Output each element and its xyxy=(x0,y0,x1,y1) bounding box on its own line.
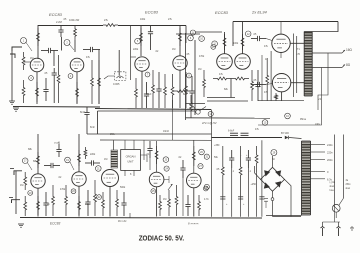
capacitor C8 xyxy=(148,26,153,51)
wire grid1 EL34 xyxy=(266,39,272,41)
wire screens xyxy=(270,51,272,101)
label BY100 xyxy=(281,131,289,135)
capacitor C34 bias xyxy=(264,199,268,208)
wire V2b cathode xyxy=(179,70,181,108)
resistor R9 cathode xyxy=(76,82,79,103)
svg-text:100k: 100k xyxy=(140,18,146,21)
svg-text:21: 21 xyxy=(97,168,100,171)
capacitor C21 coupling xyxy=(44,163,60,168)
svg-text:+: + xyxy=(246,154,248,157)
svg-text:4.7k: 4.7k xyxy=(204,198,209,201)
wire mid gnd xyxy=(186,117,271,119)
wire bridge left stub xyxy=(255,166,261,179)
wire NFB xyxy=(258,68,322,126)
capacitor C24 coupling xyxy=(85,160,100,165)
capacitor C20 xyxy=(43,192,48,216)
svg-text:27k: 27k xyxy=(104,19,109,22)
label 240v xyxy=(327,143,333,147)
svg-text:2x EL34: 2x EL34 xyxy=(251,10,267,15)
svg-text:1M: 1M xyxy=(198,68,201,71)
misc value labels xyxy=(20,18,322,206)
wire el34 gnd xyxy=(258,100,304,102)
wire speaker common xyxy=(318,53,328,110)
svg-text:1M: 1M xyxy=(104,158,107,161)
resistor R47 xyxy=(220,146,225,217)
wire V9 cathode xyxy=(156,187,158,217)
capacitor C26 xyxy=(147,141,152,170)
node circled 19 xyxy=(65,157,74,170)
resistor R17 xyxy=(171,74,174,108)
node circled 25 xyxy=(151,189,156,194)
wire J1 shield xyxy=(11,51,13,101)
svg-text:470k: 470k xyxy=(199,55,205,58)
svg-text:500k: 500k xyxy=(120,186,126,189)
wire V1 plate xyxy=(37,25,39,59)
svg-text:ECC83: ECC83 xyxy=(145,10,159,15)
capacitor C22 top xyxy=(54,142,62,158)
wire driver top xyxy=(195,31,222,33)
pentode V5 EL34 xyxy=(272,74,290,92)
resistor R1 grid leak xyxy=(22,52,25,70)
svg-text:10: 10 xyxy=(200,38,203,41)
resistor R5 27k xyxy=(103,24,118,27)
svg-text:47k: 47k xyxy=(255,128,260,131)
resistor R37 xyxy=(65,185,68,216)
mains transformer T2 core xyxy=(302,141,311,215)
wire driver gnd b xyxy=(207,100,248,102)
resistor R32 plate xyxy=(37,152,40,168)
svg-text:slow: slow xyxy=(346,188,351,190)
wire V10 plate xyxy=(193,140,195,173)
svg-text:7: 7 xyxy=(147,74,149,77)
resistor R19 nfb xyxy=(174,90,190,93)
svg-text:1: 1 xyxy=(23,40,25,43)
resistor R31 xyxy=(24,196,27,216)
svg-text:.1: .1 xyxy=(232,170,235,173)
wire psu bottom rail xyxy=(266,215,302,217)
bridge rectifier MR1-4 diamond xyxy=(261,167,285,191)
svg-text:200v: 200v xyxy=(327,158,333,162)
wire psu bottom rail2 xyxy=(273,216,302,218)
triode V8 xyxy=(102,170,119,187)
resistor R46 xyxy=(198,195,201,216)
resistor R25 xyxy=(251,70,254,101)
wire T2 tap 0 xyxy=(311,171,326,173)
wire 8mF riser xyxy=(84,107,89,134)
label VR1 xyxy=(113,82,120,86)
svg-text:12: 12 xyxy=(247,33,250,36)
svg-text:14: 14 xyxy=(209,113,212,116)
svg-text:3a: 3a xyxy=(346,180,349,182)
svg-text:8mF: 8mF xyxy=(90,126,95,129)
label C2 value xyxy=(56,20,62,24)
triode V2a xyxy=(135,57,149,71)
wire bridge bottom xyxy=(272,191,274,198)
capacitor C27 xyxy=(180,160,185,216)
wire interstage xyxy=(53,51,55,67)
resistor R7 xyxy=(57,55,60,103)
svg-text:95ma: 95ma xyxy=(300,118,307,121)
svg-text:5: 5 xyxy=(137,40,139,43)
svg-text:+: + xyxy=(226,203,228,206)
svg-text:.05: .05 xyxy=(44,72,48,75)
wire V6 cathode xyxy=(37,188,39,217)
resistor R35 plate xyxy=(78,150,81,166)
wire J2 shield xyxy=(15,171,17,214)
svg-text:ORGAN: ORGAN xyxy=(126,155,136,159)
svg-text:470: 470 xyxy=(296,53,301,56)
svg-text:26: 26 xyxy=(200,151,203,154)
wire V7 cathode xyxy=(78,186,80,217)
resistor R28 bias xyxy=(190,95,193,118)
triode V10 xyxy=(187,173,202,188)
mains pin N xyxy=(337,222,341,236)
svg-text:47k: 47k xyxy=(264,91,269,94)
resistor R15 xyxy=(152,70,155,108)
wire V6 plate xyxy=(37,134,39,174)
svg-text:ECC83: ECC83 xyxy=(215,10,229,15)
wire bus drop a xyxy=(143,140,145,160)
svg-text:1M: 1M xyxy=(163,198,166,201)
svg-text:0.005: 0.005 xyxy=(113,82,120,86)
svg-text:+: + xyxy=(240,154,242,157)
capacitor C9 bypass xyxy=(144,82,149,108)
svg-text:UNIT: UNIT xyxy=(127,160,134,164)
resistor R30 grid leak xyxy=(24,172,27,190)
label unit line2 xyxy=(127,160,134,164)
wire B+ top bus xyxy=(233,21,338,23)
fuse F1 xyxy=(271,198,274,217)
label 220v xyxy=(327,151,333,155)
resistor R13 xyxy=(179,28,182,46)
wire heater rail xyxy=(100,139,212,141)
svg-text:1M: 1M xyxy=(172,48,175,51)
svg-text:15: 15 xyxy=(264,122,267,125)
node circled 10 xyxy=(199,36,205,42)
svg-text:BY100: BY100 xyxy=(281,131,289,135)
resistor R3 100k plate xyxy=(37,28,40,46)
capacitor C32 filter xyxy=(246,150,251,217)
jack J2 input xyxy=(10,169,22,176)
capacitor C23 xyxy=(85,190,90,216)
label ECC83 bottom xyxy=(50,222,61,226)
wire el34 feed col2 xyxy=(296,36,298,93)
svg-text:fuse: fuse xyxy=(330,190,335,192)
node circled 23 xyxy=(163,157,169,163)
svg-text:.05: .05 xyxy=(253,33,257,36)
resistor R18 xyxy=(185,72,188,108)
svg-text:16mF: 16mF xyxy=(163,130,170,133)
resistor R33 cathode xyxy=(37,196,40,215)
wire HT to PSU xyxy=(212,110,283,141)
wire T1 tap 8ohm xyxy=(312,65,345,68)
wire V10 cathode xyxy=(193,188,195,217)
svg-text:0: 0 xyxy=(327,170,329,174)
triode V6 xyxy=(31,174,45,188)
wire plate V4 xyxy=(290,42,304,44)
svg-text:2.2M: 2.2M xyxy=(56,20,62,24)
svg-text:68k: 68k xyxy=(28,148,33,151)
node circled 18 xyxy=(28,191,33,196)
node circled 11 xyxy=(212,41,218,47)
svg-text:31: 31 xyxy=(205,156,208,159)
wire col 211 xyxy=(211,140,213,217)
wire V4 top feed xyxy=(280,22,282,35)
svg-text:1M: 1M xyxy=(20,184,23,187)
wire mains live xyxy=(334,135,336,205)
resistor R14 cathode xyxy=(135,78,138,108)
wire T2 tap 240 xyxy=(311,144,326,146)
bias switch SW1 xyxy=(193,106,206,114)
triode V1a xyxy=(30,58,44,72)
wire V2 cathode xyxy=(76,72,78,105)
wire V3a plate xyxy=(224,32,226,54)
svg-text:220v: 220v xyxy=(327,151,333,155)
resistor R43 vol xyxy=(168,190,171,216)
svg-text:.01: .01 xyxy=(146,153,150,156)
ground J1 xyxy=(9,101,15,104)
wire T2 tap 220 xyxy=(311,151,326,153)
capacitor C16 xyxy=(241,133,249,135)
svg-text:16: 16 xyxy=(286,115,289,118)
svg-text:17: 17 xyxy=(24,160,27,163)
wire V1 cathode xyxy=(36,72,38,105)
svg-text:+350: +350 xyxy=(214,144,220,147)
resistor R44 xyxy=(175,185,178,216)
capacitor C15 6.8uF xyxy=(228,130,238,136)
jack J1 input xyxy=(10,47,22,58)
wire T1 tap 16ohm xyxy=(312,50,345,53)
resistor R23 tail2 xyxy=(231,77,249,80)
wire driver gnd a xyxy=(207,97,235,99)
capacitor C4 coupling xyxy=(41,48,58,53)
wire stage2 node xyxy=(98,50,100,105)
capacitor C11 xyxy=(189,76,194,108)
svg-text:24: 24 xyxy=(165,168,168,171)
resistor R20 plate xyxy=(223,34,226,50)
triode V3a xyxy=(217,54,233,70)
wire driver feed bus xyxy=(194,40,196,115)
capacitor C6 coupling2 xyxy=(83,47,100,52)
wire HT rail lower xyxy=(87,133,212,135)
resistor R35b xyxy=(84,147,87,159)
wire V2b plate riser xyxy=(179,26,181,56)
svg-text:47k: 47k xyxy=(86,56,91,59)
svg-text:6.3v: 6.3v xyxy=(327,177,333,181)
ground bus top-left xyxy=(13,106,100,109)
resistor R45 plate xyxy=(192,146,195,166)
jack J3 input xyxy=(9,198,20,204)
label bias xyxy=(202,121,217,125)
svg-text:8mF: 8mF xyxy=(80,110,86,114)
wire B+ drop left xyxy=(232,22,234,47)
wire top B+ bus channel1 right xyxy=(118,25,186,27)
wire driver gnd c xyxy=(186,103,206,105)
svg-text:23: 23 xyxy=(165,159,168,162)
label R4 value xyxy=(69,18,80,22)
label 16ohm xyxy=(346,48,353,52)
node circled 16 xyxy=(285,113,291,119)
mains transformer T2 rails xyxy=(302,141,311,215)
svg-text:240v: 240v xyxy=(327,143,333,147)
svg-text:ZODIAC 50. 5V.: ZODIAC 50. 5V. xyxy=(139,234,185,243)
triode V2b xyxy=(173,56,187,70)
node circled 32 xyxy=(204,184,209,189)
diode MR1 xyxy=(264,170,270,176)
svg-text:470k: 470k xyxy=(60,188,66,191)
node circled 3 xyxy=(29,76,34,81)
wire plate V5 xyxy=(291,82,304,84)
wire HT corner xyxy=(97,111,99,134)
svg-text:8 ×××××: 8 ××××× xyxy=(188,222,199,226)
node circled 21 xyxy=(96,166,102,172)
label 8ohm xyxy=(346,63,351,67)
wire V9 plate xyxy=(156,141,158,172)
node circled 26 xyxy=(199,149,205,155)
wire el34 feed col1 xyxy=(293,34,295,98)
svg-text:100k: 100k xyxy=(233,42,239,45)
capacitor C28 xyxy=(185,195,190,216)
svg-text:82k: 82k xyxy=(224,88,229,91)
wire V2 plate riser xyxy=(140,25,142,56)
wire T2 tap 63 xyxy=(311,178,326,180)
wire V8 cathode xyxy=(109,187,111,217)
resistor R24 xyxy=(203,70,206,97)
label EL34 pair xyxy=(251,10,267,15)
wire long mid vertical xyxy=(118,50,120,76)
diode MR3 xyxy=(264,182,270,188)
resistor R40 xyxy=(116,190,119,216)
node circled 22 xyxy=(97,195,102,200)
wire V4 cathode xyxy=(280,53,282,59)
svg-text:8Ω: 8Ω xyxy=(346,63,351,67)
wire B+ drop right xyxy=(312,22,338,32)
wire tick1 xyxy=(129,213,131,218)
wire HT rail upper xyxy=(98,110,196,112)
ground bus top-mid xyxy=(95,109,211,110)
capacitor C12 xyxy=(255,70,260,101)
node circled 1 xyxy=(21,38,33,52)
resistor R4 220k xyxy=(74,25,77,52)
fuse F2 mains xyxy=(332,204,340,212)
svg-text:.02: .02 xyxy=(155,50,159,53)
resistor R34 xyxy=(52,185,55,216)
svg-text:29: 29 xyxy=(273,152,276,155)
resistor R12 100k xyxy=(140,28,143,46)
node circled 5 xyxy=(135,38,141,44)
resistor R36 xyxy=(78,196,81,215)
wire unit right xyxy=(140,155,147,162)
wire top B+ bus channel1 xyxy=(38,25,103,27)
svg-text:T1: T1 xyxy=(297,48,300,51)
wire box left xyxy=(104,76,114,79)
output transformer T1 core xyxy=(304,32,312,97)
label part nums xyxy=(118,219,127,223)
triode V1b xyxy=(70,58,84,72)
tremolo unit box xyxy=(121,150,141,171)
capacitor C10 xyxy=(156,72,161,108)
label part nums2 xyxy=(188,222,199,226)
wire grid V2 xyxy=(131,26,137,81)
svg-text:240v: 240v xyxy=(315,123,321,126)
label 350V xyxy=(214,144,220,147)
pentode V4 EL34 xyxy=(272,34,290,52)
node circled 24 xyxy=(164,166,169,171)
capacitor C29 xyxy=(229,150,234,217)
wire grid V9 xyxy=(164,179,169,181)
resistor R21 plate xyxy=(241,34,244,50)
label 63v xyxy=(327,177,333,181)
svg-text:27k: 27k xyxy=(168,18,173,21)
wire left rail driver xyxy=(185,33,187,120)
node circled 13 xyxy=(211,45,216,50)
svg-text:27: 27 xyxy=(199,165,202,168)
resistor R11 xyxy=(98,60,101,104)
svg-text:2/V××@-5V: 2/V××@-5V xyxy=(202,121,217,125)
label unit line1 xyxy=(126,155,136,159)
mains earth xyxy=(350,226,354,230)
node circled 17 xyxy=(22,158,32,170)
wire top right corner xyxy=(176,26,200,44)
wire el34 left col1 xyxy=(261,55,263,101)
ground symbol top-left xyxy=(13,108,19,111)
svg-text:R××.01: R××.01 xyxy=(118,219,127,223)
svg-text:19: 19 xyxy=(66,159,69,162)
resistor R26 cathode xyxy=(275,93,278,101)
svg-text:.1: .1 xyxy=(249,170,252,173)
svg-text:8: 8 xyxy=(130,173,132,176)
resistor R39 xyxy=(102,192,105,216)
output transformer T1 rails xyxy=(304,32,312,97)
capacitor C33 filter xyxy=(255,146,258,217)
resistor R22 tail xyxy=(213,77,231,80)
svg-text:250v: 250v xyxy=(346,184,352,186)
svg-text:220k: 220k xyxy=(133,48,139,51)
capacitor C31 filter xyxy=(238,146,243,217)
diode MR4 xyxy=(275,181,281,187)
resistor R41 plate xyxy=(155,146,158,164)
node circled 8 xyxy=(187,73,192,78)
svg-text:.02: .02 xyxy=(58,176,62,179)
node circled 20 xyxy=(71,189,76,194)
node circled 28 xyxy=(203,186,208,191)
resistor R16 xyxy=(164,74,167,108)
svg-text:2.2k: 2.2k xyxy=(85,203,90,206)
node circled 27 xyxy=(198,164,203,169)
capacitor C14 coupling g2 xyxy=(251,82,266,87)
svg-text:8: 8 xyxy=(188,75,190,78)
wire to plug xyxy=(323,205,341,223)
triode V7 xyxy=(72,172,86,186)
resistor R42 xyxy=(159,195,162,216)
wire choke top xyxy=(113,140,115,150)
svg-text:25uF: 25uF xyxy=(54,143,60,145)
wire node xyxy=(61,37,63,51)
svg-text:4: 4 xyxy=(70,75,72,78)
label fuse text xyxy=(330,180,352,192)
node circled 2 xyxy=(64,40,74,51)
svg-text:+: + xyxy=(243,203,245,206)
resistor R2 xyxy=(22,80,25,103)
triode V3b xyxy=(235,54,251,70)
label 0v xyxy=(327,170,329,174)
label ECC83 V2 xyxy=(145,10,159,15)
label ECC83 V3 xyxy=(215,10,229,15)
capacitor C3 cathode bypass xyxy=(43,78,48,101)
svg-text:2: 2 xyxy=(66,42,68,45)
potentiometer VR1 dashed box xyxy=(114,72,126,81)
label +250v xyxy=(251,183,257,186)
